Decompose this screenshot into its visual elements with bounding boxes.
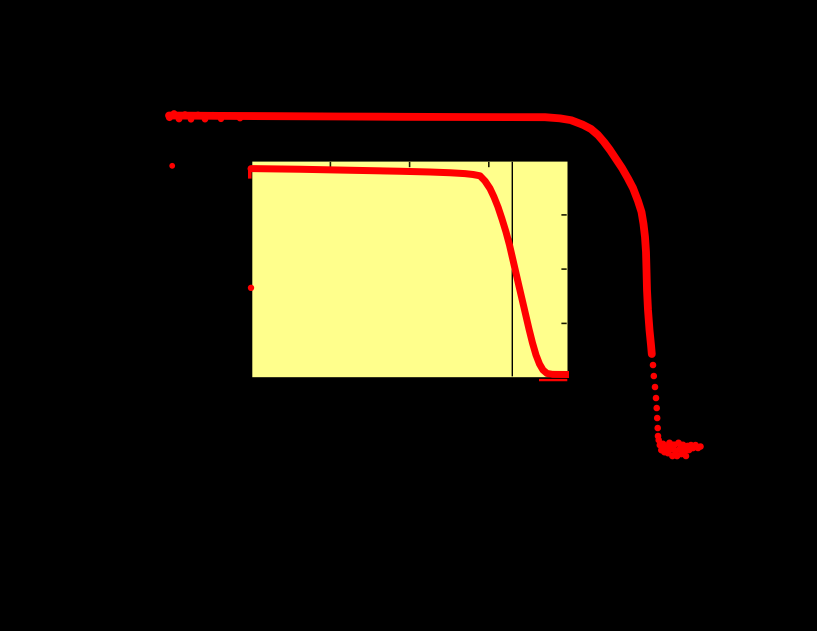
inset top ticks xyxy=(330,162,488,167)
inset axes yellow panel xyxy=(251,160,569,378)
main axes isolated left dot xyxy=(169,163,175,169)
main curve bottom scatter cluster xyxy=(655,437,703,460)
inset left edge dot xyxy=(248,285,254,291)
inset vertical marker line xyxy=(511,162,513,377)
inset flat tail below axis xyxy=(539,379,567,381)
main curve flat + drop xyxy=(169,116,652,355)
main curve start jagged dots xyxy=(166,110,243,123)
inset right ticks xyxy=(561,215,566,324)
main curve dotted vertical tail xyxy=(650,362,662,440)
inset left errorbar cap xyxy=(248,167,252,179)
